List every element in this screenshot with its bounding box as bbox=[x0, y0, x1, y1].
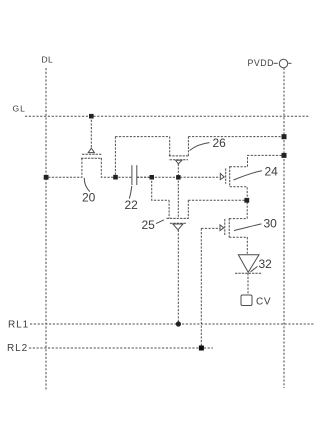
svg-text:PVDD: PVDD bbox=[248, 58, 274, 68]
transistor 30 bbox=[201, 200, 247, 348]
wire PVDD vertical rail bbox=[283, 68, 285, 388]
wire top rail right segment to PVDD bbox=[188, 136, 284, 138]
wire gate lead of 28 down to RL1 bbox=[177, 230, 179, 324]
junction DL to source of 20 bbox=[44, 175, 49, 180]
junction GL to gate of 20 bbox=[89, 114, 94, 119]
wire RL1 horizontal line bbox=[30, 323, 315, 325]
transistor 26 bbox=[169, 137, 189, 178]
wire DL vertical data line bbox=[45, 68, 47, 390]
wire top drain of 30 to junction bbox=[229, 200, 247, 218]
gate arrow of 30 bbox=[220, 225, 224, 231]
junction PVDD to top rail bbox=[282, 134, 287, 139]
junction cap-node vertical at lower rail bbox=[113, 175, 118, 180]
terminal CV square bbox=[241, 295, 252, 306]
leader line for label 30 bbox=[234, 224, 262, 231]
junction node rail to gate of 26 bbox=[176, 175, 181, 180]
junction PVDD to source of 24 bbox=[282, 153, 287, 158]
wire 30 gate riser down to RL2 bbox=[200, 228, 202, 348]
gate arrow of 20 bbox=[88, 148, 94, 152]
right plate of 22 bbox=[136, 165, 138, 185]
svg-text:GL: GL bbox=[13, 104, 26, 114]
junction gate lead of 28 at RL1 bbox=[176, 321, 181, 326]
wire gate lead of 26 down to node bbox=[177, 164, 179, 177]
transistor 20 bbox=[46, 116, 132, 177]
wire from node down to left leg of 28 bbox=[152, 177, 169, 200]
wire cap-node vertical to top rail bbox=[114, 137, 116, 178]
cathode bar of 32 bbox=[235, 272, 262, 274]
wire left drain leg of 26 bbox=[169, 137, 171, 156]
svg-text:26: 26 bbox=[213, 136, 227, 150]
wire left source leg of 20 bbox=[46, 158, 82, 177]
gate bar of 26 bbox=[170, 159, 189, 161]
wire top rail left segment bbox=[115, 136, 169, 138]
leader line for label 20 bbox=[84, 178, 90, 192]
wire left leg of 28 bbox=[168, 200, 170, 218]
wire right drain leg of 20 bbox=[101, 158, 132, 177]
capacitor 22 bbox=[132, 165, 152, 185]
channel bar of 28 bbox=[167, 217, 189, 219]
transistor 24 bbox=[220, 155, 284, 200]
channel bar of 20 bbox=[81, 157, 102, 159]
wire tick PVDD label to terminal bbox=[274, 62, 278, 64]
leader line for label 26 bbox=[190, 143, 210, 151]
channel bar of 30 bbox=[228, 218, 230, 237]
wire gate lead of 30 from RL2 riser bbox=[201, 227, 220, 229]
svg-text:32: 32 bbox=[259, 257, 273, 271]
wire bottom drain of 24 to junction bbox=[230, 187, 248, 201]
leader line for label 22 bbox=[129, 186, 132, 199]
diode 32 bbox=[235, 255, 262, 295]
gate bar of 30 bbox=[224, 219, 226, 236]
svg-text:25: 25 bbox=[142, 218, 156, 232]
wire right of 22 bbox=[137, 176, 152, 178]
wire GL horizontal gate line bbox=[25, 115, 310, 117]
wire center drain lead of 28 bbox=[177, 177, 179, 218]
wire cathode lead of 32 to CV terminal bbox=[247, 273, 249, 295]
svg-text:20: 20 bbox=[82, 191, 96, 205]
junction node rail to leg of 28 bbox=[150, 175, 155, 180]
gate arrow of 28 bbox=[173, 224, 183, 230]
wire bottom source of 30 bbox=[229, 237, 247, 254]
leader line for label 24 bbox=[234, 171, 263, 180]
anode triangle of 32 bbox=[238, 255, 259, 272]
wire RL2 horizontal line bbox=[29, 347, 213, 349]
svg-text:RL2: RL2 bbox=[7, 343, 28, 354]
leader line for label 28 bbox=[156, 220, 164, 224]
gate bar of 20 bbox=[82, 153, 101, 155]
transistor 28 bbox=[152, 177, 247, 324]
junction drain of 24 / 28 / 30 bbox=[244, 198, 249, 203]
wire top source of 24 to PVDD bbox=[230, 155, 284, 166]
svg-text:DL: DL bbox=[42, 55, 54, 65]
wire right leg of 28 bbox=[187, 200, 189, 218]
wire tick right of PVDD terminal bbox=[288, 62, 291, 64]
channel bar of 26 bbox=[169, 155, 189, 157]
wire right source leg of 26 bbox=[187, 137, 189, 156]
channel bar of 24 bbox=[229, 166, 231, 186]
gate arrow of 26 bbox=[176, 160, 182, 164]
gate arrow of 24 bbox=[220, 174, 224, 180]
junction gate riser of 30 at RL2 bbox=[199, 346, 204, 351]
gate bar of 28 bbox=[170, 222, 186, 224]
svg-text:24: 24 bbox=[265, 165, 279, 179]
gate bar of 24 bbox=[225, 168, 227, 183]
wire right leg of 28 to junction bbox=[188, 199, 247, 201]
leader line for label 32 bbox=[251, 266, 258, 271]
left plate of 22 bbox=[131, 165, 133, 185]
svg-text:CV: CV bbox=[256, 296, 271, 307]
svg-text:22: 22 bbox=[125, 198, 139, 212]
svg-text:RL1: RL1 bbox=[8, 319, 29, 330]
terminal PVDD circle bbox=[279, 59, 287, 67]
svg-text:30: 30 bbox=[264, 217, 278, 231]
wire gate lead of 20 from GL bbox=[90, 116, 92, 148]
wire storage node rail (cap to gate of 24) bbox=[137, 176, 220, 178]
